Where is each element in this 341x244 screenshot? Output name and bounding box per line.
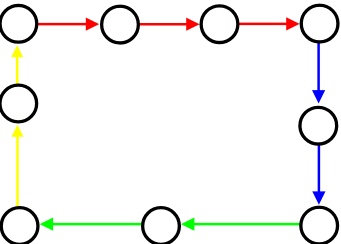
node BL (bottom-left circle): [1, 208, 38, 244]
wire: blue edge R to BR: [312, 126, 325, 205]
node R (right-middle circle): [300, 107, 337, 144]
wire: green edge BR to B: [181, 218, 319, 231]
node B (bottom-middle circle): [143, 208, 180, 244]
node T2 (top row second circle): [102, 6, 139, 43]
wire: blue edge TR to R: [312, 24, 325, 104]
wire: red edge T2 to T3: [120, 18, 200, 31]
wire: yellow edge BL to L: [12, 125, 24, 226]
wire: yellow edge L to TL: [11, 45, 23, 103]
node BR (bottom-right circle): [301, 207, 338, 244]
node L (left-middle circle): [0, 85, 37, 122]
node TL (top-left circle): [0, 5, 37, 42]
node TR (top-right circle): [301, 5, 338, 42]
node T3 (top row third circle): [201, 6, 238, 43]
wire: red edge TL to T2: [18, 18, 99, 31]
wire: green edge B to BL: [40, 218, 161, 231]
wire: red edge T3 to TR: [220, 17, 300, 30]
